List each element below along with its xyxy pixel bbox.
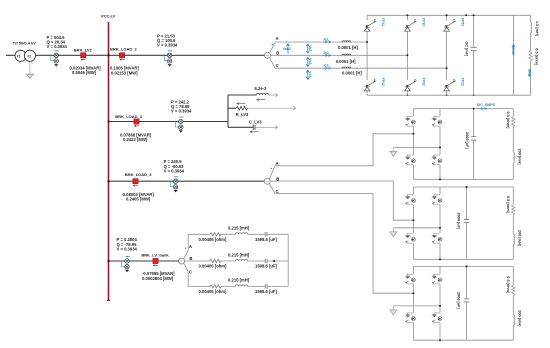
- svg-text:0.00405 [ohm]: 0.00405 [ohm]: [199, 264, 228, 269]
- wire row3 feeder: [109, 180, 265, 182]
- breaker BRK_LOAD_3: [134, 119, 139, 127]
- wire fan C: [184, 263, 189, 271]
- svg-text:Ic2: Ic2: [324, 64, 329, 68]
- breaker BRK_LV_bank: [153, 258, 158, 266]
- ammeter Ic2: [323, 67, 331, 70]
- svg-text:0.02153 [MW]: 0.02153 [MW]: [111, 70, 138, 75]
- svg-text:B: B: [189, 256, 192, 261]
- svg-text:BRK_LV_bank: BRK_LV_bank: [141, 253, 169, 258]
- svg-text:2: 2: [453, 78, 455, 82]
- wire branch C: [228, 126, 253, 128]
- transistor FP62: [405, 81, 417, 91]
- svg-text:2: 2: [374, 78, 376, 82]
- diode leg1 bridge1: [405, 109, 416, 172]
- wire leg3 segments: [446, 15, 448, 95]
- resistor bridge3 0.5 ohm: [512, 285, 515, 295]
- svg-text:V = 0.3934: V = 0.3934: [157, 43, 178, 48]
- wire row2 feeder: [109, 121, 229, 123]
- wire bridge3 top rail: [413, 265, 513, 267]
- wire bridge1 cap leg: [473, 109, 475, 180]
- wire bank B rail: [188, 260, 288, 262]
- wire bridge3 cap leg: [466, 266, 468, 340]
- svg-text:BRK_LV2: BRK_LV2: [74, 48, 93, 53]
- wire voltmeter leg: [513, 15, 515, 95]
- wire bridge3 leg extensions: [413, 329, 440, 340]
- node dots on bus: [107, 54, 109, 56]
- inductor bridge1 200 mH: [513, 152, 514, 162]
- svg-text:FP22: FP22: [461, 78, 465, 86]
- transformer T1 Trf 50/0.4 kV: [13, 40, 37, 64]
- capacitor bridge1 2000 uF: [471, 137, 476, 140]
- inductor Lc 0.0001 H: [342, 67, 351, 68]
- diode leg2 bridge2: [432, 187, 443, 250]
- junction dots bridge3: [412, 292, 414, 294]
- wire fan B: [271, 54, 276, 56]
- transistor FP42: [364, 81, 376, 91]
- svg-text:0.2405 [MW]: 0.2405 [MW]: [126, 197, 151, 202]
- capacitor bank A 1598.6 uF: [265, 232, 267, 237]
- svg-text:C_LV3: C_LV3: [249, 120, 262, 125]
- resistor R_LV3: [236, 106, 247, 110]
- svg-text:IDC_SMPS: IDC_SMPS: [477, 103, 496, 107]
- wire bridge2 top rail: [413, 186, 513, 188]
- svg-text:FP52: FP52: [461, 18, 465, 26]
- svg-text:2000 [uF]: 2000 [uF]: [456, 292, 460, 309]
- svg-text:2: 2: [414, 78, 416, 82]
- svg-text:200 [mH]: 200 [mH]: [518, 310, 522, 327]
- svg-text:Ia2: Ia2: [324, 38, 329, 42]
- inductor bridge3 200 mH: [513, 315, 514, 325]
- svg-text:BRK_LOAD_4: BRK_LOAD_4: [125, 172, 152, 177]
- wire rail B2: [275, 54, 407, 56]
- capacitor bank B: [265, 259, 267, 264]
- svg-text:0.215 [mH]: 0.215 [mH]: [228, 278, 250, 283]
- inductor 1.5 mH: [531, 22, 532, 32]
- svg-text:A: A: [276, 161, 279, 166]
- wire fan C: [269, 183, 275, 193]
- wire bank right tie: [287, 234, 289, 286]
- breaker BRK_LOAD_2: [119, 53, 124, 61]
- voltmeter Va2: [306, 44, 312, 53]
- ammeter Ib2: [323, 54, 331, 57]
- wire leg2 segments: [406, 15, 408, 95]
- svg-text:FP32: FP32: [421, 18, 425, 26]
- svg-text:PCC-LV: PCC-LV: [101, 14, 115, 18]
- voltmeter Vc2: [306, 70, 312, 79]
- voltmeter UDC2: [512, 45, 515, 57]
- ground bridge3: [390, 306, 397, 315]
- diode leg2 bridge1: [432, 109, 443, 172]
- diode leg1 bridge2: [405, 187, 416, 250]
- ground bridge2: [390, 228, 397, 237]
- svg-text:2000 [uF]: 2000 [uF]: [465, 132, 469, 149]
- svg-text:0.00405 [ohm]: 0.00405 [ohm]: [199, 237, 228, 242]
- svg-text:FP12: FP12: [381, 18, 385, 26]
- wire fan B: [270, 180, 275, 182]
- svg-text:V = 0.3934: V = 0.3934: [164, 168, 185, 173]
- wire fan A: [269, 166, 275, 179]
- svg-text:C: C: [189, 270, 192, 275]
- capacitor bridge3 2000 uF: [464, 299, 469, 302]
- wire branch R: [228, 107, 236, 109]
- svg-text:1598.6 [uF]: 1598.6 [uF]: [255, 264, 277, 269]
- bus PCC-LV: [108, 22, 110, 301]
- svg-text:Va2: Va2: [308, 45, 312, 51]
- svg-text:0.0001 [H]: 0.0001 [H]: [338, 45, 358, 50]
- ammeter IDC2: [528, 70, 531, 77]
- wire fan C: [270, 57, 275, 68]
- svg-text:200 [mH]: 200 [mH]: [518, 149, 522, 166]
- meter M2: [164, 51, 172, 67]
- resistor bridge1 0.5 ohm: [512, 116, 515, 126]
- junction dot bank B: [273, 260, 275, 262]
- svg-text:B: B: [276, 50, 279, 55]
- svg-text:FP42: FP42: [381, 78, 385, 86]
- wire row1 feeder: [6, 54, 265, 56]
- svg-text:Trf 50/0.4 kV: Trf 50/0.4 kV: [13, 40, 37, 45]
- svg-text:2: 2: [414, 19, 416, 23]
- resistor bank A 0.00405 ohm: [210, 233, 221, 236]
- wire fan B: [185, 260, 189, 262]
- svg-text:0.5 [ohm]: 0.5 [ohm]: [506, 112, 510, 130]
- svg-text:Ib2: Ib2: [324, 51, 329, 55]
- wire top DC rail: [367, 14, 530, 16]
- wire bridge2 Rmid tie: [393, 227, 440, 229]
- wire bridge1 top rail: [413, 108, 513, 110]
- svg-text:DC [mF]: DC [mF]: [465, 42, 469, 57]
- resistor bridge2 0.5 ohm: [512, 205, 515, 215]
- wire rail A3 to bridge1: [275, 134, 413, 166]
- wire RL load leg: [530, 15, 532, 95]
- wire bank A rail: [188, 234, 288, 250]
- wire fan A: [184, 251, 189, 259]
- svg-text:0.215 [mH]: 0.215 [mH]: [228, 226, 250, 231]
- svg-text:0.0001 [H]: 0.0001 [H]: [336, 59, 356, 64]
- transistor FP12: [364, 21, 376, 31]
- svg-text:BRK_LOAD_3: BRK_LOAD_3: [115, 114, 142, 119]
- splitter S4: [179, 258, 185, 264]
- svg-text:6.2e-3: 6.2e-3: [255, 86, 268, 91]
- wire branch vertical: [227, 95, 229, 127]
- svg-text:1598.6 [uF]: 1598.6 [uF]: [255, 237, 277, 242]
- meter M3: [176, 117, 184, 133]
- svg-text:A: A: [189, 244, 192, 249]
- svg-text:C: C: [276, 63, 279, 68]
- diode leg2 bridge3: [432, 266, 443, 329]
- ground bridge1: [390, 147, 397, 156]
- wire DC cap leg: [473, 15, 475, 95]
- wire bridge3 Rmid tie: [393, 305, 440, 307]
- transistor FP52: [444, 21, 456, 31]
- voltmeter Vb2: [306, 57, 312, 66]
- splitter S1: [265, 52, 271, 58]
- meter M4: [170, 177, 178, 193]
- svg-text:C: C: [276, 189, 279, 194]
- wire bottom DC rail: [367, 94, 530, 96]
- svg-text:2000 [uF]: 2000 [uF]: [456, 213, 460, 230]
- wire branch L: [228, 94, 257, 96]
- ground below transformer: [26, 62, 33, 78]
- wire bridge1 leg extensions: [413, 171, 440, 179]
- resistor bank B: [210, 259, 221, 262]
- svg-text:0.215 [mH]: 0.215 [mH]: [228, 252, 250, 257]
- meter M1: [51, 51, 59, 67]
- junction dots inverter: [366, 41, 368, 43]
- inductor Lb 0.0001 H: [342, 54, 351, 55]
- wire rail B3 to bridge2: [275, 181, 413, 220]
- wire bridge3 bottom rail: [413, 339, 513, 341]
- svg-text:200 [mH]: 200 [mH]: [518, 230, 522, 247]
- svg-text:1.5 [mH]: 1.5 [mH]: [535, 21, 539, 37]
- svg-text:IDC2: IDC2: [528, 69, 532, 77]
- voltmeter Vab2: [283, 44, 291, 54]
- wire bridge1 load leg: [512, 109, 514, 180]
- meter M5: [122, 257, 130, 273]
- inductor bridge2 200 mH: [513, 234, 514, 244]
- svg-text:Vb2: Vb2: [308, 58, 312, 64]
- wire bridge2 cap leg: [466, 187, 468, 259]
- svg-text:0.5 [ohm]: 0.5 [ohm]: [506, 276, 510, 294]
- inductor 6.2e-3: [256, 93, 268, 95]
- ammeter Ia2: [323, 41, 331, 44]
- svg-text:V = 0.3934: V = 0.3934: [171, 109, 192, 114]
- wire bridge1 bottom rail: [413, 178, 513, 180]
- wire leg1 segments: [366, 15, 368, 95]
- svg-text:R_LV3: R_LV3: [236, 112, 249, 117]
- svg-text:Vc2: Vc2: [308, 71, 312, 77]
- svg-text:FP62: FP62: [421, 78, 425, 86]
- transistor FP32: [405, 21, 417, 31]
- splitter S3: [264, 178, 270, 184]
- wire bridge1 Rmid tie: [393, 146, 440, 148]
- svg-text:V = 0.3934: V = 0.3934: [117, 246, 138, 251]
- capacitor bridge2 2000 uF: [464, 219, 469, 222]
- capacitor DC link: [471, 47, 477, 50]
- svg-text:BRK_LOAD_2: BRK_LOAD_2: [110, 46, 137, 51]
- inductor bank A 0.215 mH: [235, 233, 247, 235]
- svg-text:V = 0.3934: V = 0.3934: [47, 44, 68, 49]
- svg-text:0.00405 [ohm]: 0.00405 [ohm]: [199, 289, 228, 294]
- svg-text:Vab2: Vab2: [283, 47, 291, 51]
- inductor bank C: [235, 285, 247, 287]
- wire bridge2 bottom rail: [413, 258, 513, 260]
- wire bridge2 leg extensions: [413, 250, 440, 260]
- svg-text:0.5046 [MW]: 0.5046 [MW]: [72, 70, 97, 75]
- junction dots bridge1: [412, 133, 414, 135]
- svg-text:0.0002804 [MW]: 0.0002804 [MW]: [142, 276, 174, 281]
- wire rail C2: [275, 67, 447, 69]
- svg-text:UDC2: UDC2: [511, 46, 515, 55]
- svg-text:1598.6 [uF]: 1598.6 [uF]: [255, 289, 277, 294]
- svg-text:2: 2: [453, 19, 455, 23]
- wire bridge3 load leg: [512, 266, 514, 340]
- resistor 0.5 ohm: [529, 50, 532, 60]
- wire fan A: [270, 42, 275, 53]
- wire rail A2: [275, 41, 367, 43]
- svg-text:A: A: [276, 36, 279, 41]
- junction dots bridge2: [412, 219, 414, 221]
- svg-text:2: 2: [374, 19, 376, 23]
- capacitor C_LV3: [253, 125, 255, 130]
- wire bank C rail: [188, 272, 288, 287]
- wire bridge2 load leg: [512, 187, 514, 259]
- svg-text:#2: #2: [27, 54, 31, 58]
- svg-text:0.2422 [MW]: 0.2422 [MW]: [123, 137, 148, 142]
- breaker BRK_LOAD_4: [133, 179, 138, 187]
- wire row4 feeder: [109, 260, 179, 262]
- svg-text:0.0001 [H]: 0.0001 [H]: [342, 70, 362, 75]
- wire rail C3 to bridge3: [275, 194, 413, 294]
- transistor FP22: [444, 81, 456, 91]
- resistor bank C: [210, 285, 221, 288]
- inductor bank B: [235, 259, 247, 261]
- diode leg1 bridge3: [405, 266, 416, 329]
- breaker BRK_LV2: [81, 53, 86, 61]
- capacitor bank C: [265, 284, 267, 289]
- inductor La 0.0001 H: [342, 41, 351, 42]
- svg-text:0.5 [ohm]: 0.5 [ohm]: [535, 48, 539, 66]
- svg-text:0.5 [ohm]: 0.5 [ohm]: [506, 196, 510, 214]
- svg-text:#1: #1: [17, 54, 21, 58]
